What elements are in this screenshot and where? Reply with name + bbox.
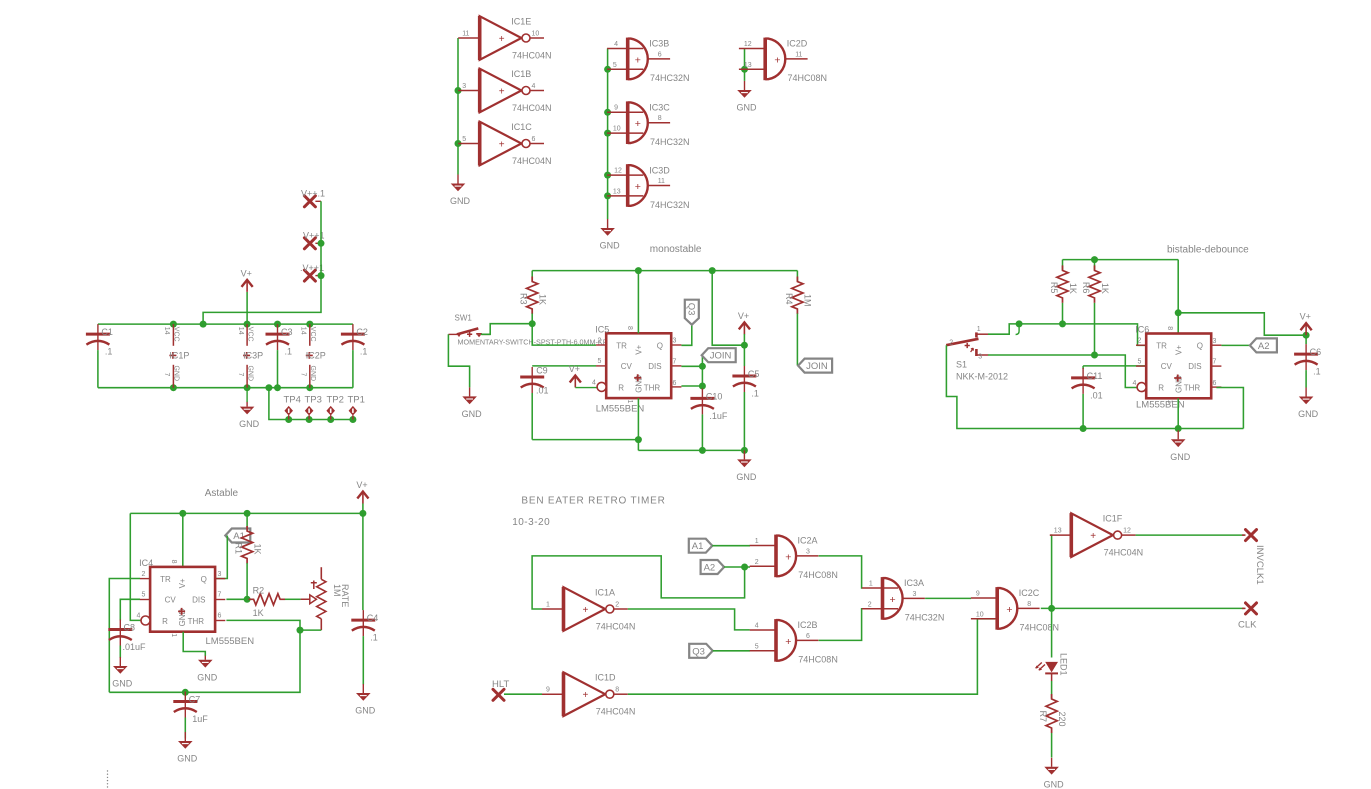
- svg-text:6: 6: [532, 136, 536, 143]
- svg-text:VCC: VCC: [173, 327, 180, 342]
- svg-text:13: 13: [613, 188, 621, 195]
- ground GND (SW1): [462, 387, 483, 419]
- capacitor C10: [690, 386, 728, 450]
- svg-text:10: 10: [532, 30, 540, 37]
- capacitor C1: [86, 324, 113, 388]
- wire net bottom rail (TR/THR/C7): [109, 630, 300, 696]
- svg-text:.1uF: .1uF: [709, 411, 728, 421]
- wire net V+ to IC5 pin 8: [637, 271, 639, 334]
- svg-text:IC1P: IC1P: [169, 350, 189, 360]
- ground GND (spare OR gates): [600, 219, 621, 251]
- svg-text:74HC08N: 74HC08N: [798, 570, 838, 580]
- svg-text:5: 5: [462, 136, 466, 143]
- wire IC5 DIS (pin 7) to JOIN flag: [681, 355, 706, 370]
- wire IC3A output to IC2C pin 9: [925, 597, 971, 599]
- svg-text:.1: .1: [1313, 367, 1321, 377]
- wire IC1A input loop from A2 node: [532, 556, 745, 609]
- svg-text:4: 4: [532, 83, 536, 90]
- wire stub J-hook at junction: [1016, 324, 1020, 335]
- power pins IC2P: [300, 324, 326, 388]
- svg-text:74HC32N: 74HC32N: [650, 73, 690, 83]
- svg-text:14: 14: [163, 327, 170, 335]
- wire S1 pin3 to R6 / IC6 R (pin 4): [988, 352, 1137, 388]
- wire net V+ (astable top rail): [130, 510, 366, 517]
- svg-text:HLT: HLT: [492, 679, 509, 690]
- svg-text:TR: TR: [160, 575, 171, 584]
- svg-text:.1: .1: [105, 347, 113, 357]
- switch SW1: [448, 314, 490, 338]
- svg-text:VCC: VCC: [246, 327, 253, 342]
- svg-text:LM555BEN: LM555BEN: [596, 404, 645, 415]
- svg-text:74HC32N: 74HC32N: [650, 137, 690, 147]
- test point TP1: [348, 395, 365, 420]
- flag CLK (output): [1238, 603, 1257, 631]
- svg-text:74HC04N: 74HC04N: [512, 103, 552, 113]
- svg-text:1M: 1M: [803, 294, 813, 307]
- svg-text:CV: CV: [621, 362, 633, 371]
- svg-text:R: R: [162, 617, 168, 626]
- capacitor C7: [173, 692, 208, 739]
- svg-text:IC1B: IC1B: [511, 69, 531, 79]
- power symbol V+ (bistable): [1300, 312, 1312, 336]
- svg-text:DIS: DIS: [648, 362, 661, 371]
- svg-text:GND: GND: [173, 366, 180, 382]
- supply flag V++1: [303, 231, 325, 249]
- svg-text:IC6: IC6: [1135, 325, 1149, 335]
- svg-text:220: 220: [1057, 712, 1067, 727]
- svg-text:+: +: [499, 87, 505, 98]
- capacitor C9: [520, 366, 548, 440]
- wire net V+ branch to C5: [712, 271, 748, 349]
- wire SW1 pin2 to GND: [448, 334, 469, 387]
- svg-text:R6: R6: [1081, 282, 1091, 294]
- svg-text:IC1C: IC1C: [511, 122, 532, 132]
- wire net V+ (monostable top rail): [532, 267, 797, 274]
- svg-text:6: 6: [673, 380, 677, 387]
- svg-text:GND: GND: [112, 679, 133, 689]
- svg-text:+: +: [774, 54, 780, 66]
- svg-text:5: 5: [1138, 359, 1142, 366]
- svg-text:74HC04N: 74HC04N: [596, 621, 636, 631]
- svg-text:74HC04N: 74HC04N: [596, 707, 636, 717]
- resistor R7: [1038, 681, 1067, 758]
- wire IC6 THR (pin 6) to GND rail: [1216, 388, 1243, 429]
- svg-text:1: 1: [546, 601, 550, 608]
- wire net GND bus: [98, 384, 353, 391]
- svg-text:GND: GND: [197, 672, 218, 682]
- svg-text:4: 4: [137, 613, 141, 620]
- svg-text:74HC08N: 74HC08N: [798, 655, 838, 665]
- svg-text:DIS: DIS: [192, 596, 205, 605]
- svg-text:monostable: monostable: [650, 244, 702, 255]
- capacitor C11: [1071, 368, 1103, 429]
- svg-text:1: 1: [869, 580, 873, 587]
- wire net GND (bistable bottom rail): [946, 345, 1243, 432]
- svg-text:GND: GND: [1044, 779, 1065, 789]
- wire net GND to test points: [269, 388, 357, 423]
- wire A1 to IC2A pin 1: [712, 545, 750, 547]
- wire net C11 to IC6 CV (pin 5): [1083, 366, 1146, 369]
- svg-text:74HC04N: 74HC04N: [1104, 547, 1144, 557]
- svg-text:.01: .01: [1090, 390, 1103, 400]
- or-gate IC3D: [607, 164, 689, 210]
- ground GND (IC2D inputs): [737, 81, 758, 113]
- ground GND (C7): [177, 732, 198, 764]
- svg-text:CLK: CLK: [1238, 620, 1257, 631]
- svg-text:+: +: [890, 594, 896, 606]
- svg-text:13: 13: [1054, 527, 1062, 534]
- svg-text:DIS: DIS: [1188, 362, 1201, 371]
- wire net INVCLK1 (IC1F output): [1136, 534, 1245, 536]
- wire net IC6 pin 8 / V+ branch: [1175, 260, 1310, 339]
- wire IC1A output to IC2B pin 4: [628, 609, 750, 630]
- svg-text:GND: GND: [450, 196, 471, 206]
- ground GND (monostable): [736, 450, 757, 482]
- flag A2 (input): [701, 560, 725, 574]
- svg-text:3: 3: [218, 571, 222, 578]
- svg-text:A2: A2: [1258, 341, 1270, 352]
- svg-text:C11: C11: [1087, 371, 1103, 381]
- svg-text:14: 14: [300, 327, 307, 335]
- svg-text:bistable-debounce: bistable-debounce: [1167, 244, 1249, 255]
- svg-text:74HC08N: 74HC08N: [788, 73, 828, 83]
- svg-text:GND: GND: [177, 754, 198, 764]
- svg-text:GND: GND: [462, 409, 483, 419]
- svg-text:.1: .1: [360, 347, 368, 357]
- svg-text:10: 10: [613, 126, 621, 133]
- svg-text:V+: V+: [634, 344, 643, 354]
- inverter IC1C: [458, 122, 551, 166]
- flag HLT (input): [492, 679, 509, 700]
- svg-text:+: +: [583, 605, 589, 616]
- svg-text:IC2C: IC2C: [1019, 588, 1040, 598]
- svg-text:TR: TR: [616, 341, 627, 350]
- svg-text:INVCLK1: INVCLK1: [1254, 545, 1265, 585]
- svg-text:2: 2: [615, 601, 619, 608]
- switch S1: [946, 326, 1008, 382]
- svg-text:IC3P: IC3P: [243, 350, 263, 360]
- svg-text:74HC04N: 74HC04N: [512, 50, 552, 60]
- ground GND (spare inverters): [450, 175, 471, 207]
- svg-text:GND: GND: [309, 366, 316, 382]
- svg-text:NKK-M-2012: NKK-M-2012: [956, 372, 1008, 382]
- svg-text:3: 3: [978, 354, 982, 361]
- potentiometer RATE 1M: [311, 567, 350, 630]
- svg-text:2: 2: [1138, 338, 1142, 345]
- svg-text:IC1D: IC1D: [595, 673, 616, 683]
- svg-text:GND: GND: [736, 472, 757, 482]
- svg-text:R3: R3: [519, 293, 529, 305]
- test point TP3: [305, 395, 322, 420]
- svg-text:7: 7: [163, 373, 170, 377]
- svg-text:IC2A: IC2A: [798, 536, 818, 546]
- svg-text:8: 8: [1027, 601, 1031, 608]
- svg-text:6: 6: [658, 51, 662, 58]
- resistor R2: [249, 586, 286, 618]
- svg-text:1K: 1K: [252, 544, 262, 555]
- flag INVCLK1 (output): [1242, 530, 1265, 585]
- svg-text:Astable: Astable: [205, 488, 239, 499]
- svg-text:11: 11: [462, 30, 469, 37]
- svg-text:C2: C2: [356, 327, 368, 337]
- svg-text:3: 3: [1213, 338, 1217, 345]
- svg-text:IC4: IC4: [139, 558, 153, 568]
- svg-text:12: 12: [744, 41, 752, 48]
- wire IC6 pin 1 to GND: [1177, 398, 1179, 428]
- svg-text:THR: THR: [1184, 384, 1201, 393]
- svg-text:THR: THR: [188, 617, 205, 626]
- svg-text:R: R: [618, 383, 624, 392]
- svg-text:1K: 1K: [1100, 283, 1110, 294]
- svg-text:7: 7: [1213, 359, 1217, 366]
- svg-text:+: +: [785, 551, 791, 563]
- svg-text:Q3: Q3: [692, 646, 705, 657]
- svg-text:C7: C7: [189, 695, 201, 705]
- svg-text:+: +: [1006, 604, 1012, 616]
- flag JOIN (from R4): [798, 359, 832, 373]
- origin marker dots: [107, 770, 108, 787]
- ground GND (C8): [112, 657, 133, 689]
- power pins IC3P: [237, 324, 263, 388]
- section label bistable-debounce: [1167, 244, 1249, 255]
- svg-text:C10: C10: [706, 391, 723, 401]
- svg-text:3: 3: [673, 338, 677, 345]
- svg-text:6: 6: [806, 633, 810, 640]
- resistor R3: [519, 271, 548, 324]
- or-gate IC3B: [607, 38, 689, 84]
- svg-text:JOIN: JOIN: [710, 351, 732, 362]
- power symbol V+ (power rail): [241, 268, 253, 324]
- svg-text:5: 5: [142, 592, 146, 599]
- svg-text:1uF: 1uF: [192, 714, 208, 724]
- svg-text:C8: C8: [124, 623, 136, 633]
- title BEN EATER RETRO TIMER: [521, 496, 665, 507]
- power symbol V+ (C5): [738, 311, 750, 345]
- svg-text:+: +: [635, 54, 641, 66]
- svg-text:V+: V+: [1174, 345, 1183, 355]
- wire IC4 CV (pin 5) to C8: [120, 599, 140, 620]
- wire net N$spare-inverter-inputs: [455, 38, 462, 175]
- svg-text:GND: GND: [1170, 452, 1191, 462]
- svg-text:C6: C6: [1310, 347, 1322, 357]
- flag JOIN (DIS node): [702, 348, 736, 362]
- svg-text:Q: Q: [1197, 342, 1203, 351]
- svg-text:S1: S1: [956, 360, 967, 370]
- svg-text:V+: V+: [356, 480, 367, 490]
- svg-text:.1: .1: [751, 389, 759, 399]
- svg-text:8: 8: [615, 687, 619, 694]
- svg-text:74HC32N: 74HC32N: [905, 613, 945, 623]
- or-gate IC3C: [607, 101, 689, 147]
- supply flag .V++1: [300, 263, 324, 281]
- svg-text:Q: Q: [201, 575, 207, 584]
- svg-text:11: 11: [795, 51, 802, 58]
- svg-text:74HC08N: 74HC08N: [1020, 623, 1060, 633]
- svg-text:V+: V+: [1300, 312, 1311, 322]
- capacitor C5: [732, 345, 759, 450]
- svg-text:2: 2: [868, 601, 872, 608]
- svg-text:1: 1: [170, 633, 177, 637]
- svg-text:74HC04N: 74HC04N: [512, 156, 552, 166]
- svg-text:SW1: SW1: [455, 314, 473, 323]
- svg-text:+: +: [583, 690, 589, 701]
- test point TP4: [284, 395, 301, 420]
- svg-text:V+: V+: [569, 364, 580, 374]
- svg-text:11: 11: [658, 178, 665, 185]
- wire HLT to IC1D input: [504, 693, 542, 695]
- section label Astable: [205, 488, 239, 499]
- svg-text:IC2B: IC2B: [798, 620, 818, 630]
- section label monostable: [650, 244, 702, 255]
- svg-text:8: 8: [170, 560, 177, 564]
- and-gate IC2A: [750, 535, 838, 581]
- svg-text:IC2P: IC2P: [306, 350, 326, 360]
- capacitor C8: [108, 620, 146, 659]
- wire net V+ (bistable top rail): [1063, 256, 1179, 263]
- resistor R1: [234, 526, 263, 599]
- svg-text:1: 1: [977, 326, 981, 333]
- svg-text:7: 7: [218, 592, 222, 599]
- svg-text:V+: V+: [178, 578, 187, 588]
- svg-text:6: 6: [218, 613, 222, 620]
- svg-text:1: 1: [755, 538, 759, 545]
- svg-text:VCC: VCC: [309, 327, 316, 342]
- resistor R4: [784, 271, 813, 366]
- svg-text:4: 4: [614, 41, 618, 48]
- and-gate IC2B: [750, 619, 838, 665]
- test point TP2: [326, 395, 344, 420]
- svg-text:10: 10: [976, 611, 984, 618]
- svg-text:1K: 1K: [1068, 283, 1078, 294]
- flag A1 (astable output): [225, 529, 250, 543]
- svg-text:5: 5: [755, 643, 759, 650]
- svg-text:Q3: Q3: [685, 303, 696, 316]
- svg-text:9: 9: [546, 687, 550, 694]
- inverter IC1E: [458, 16, 551, 60]
- svg-text:R: R: [1158, 384, 1164, 393]
- wire IC2B output to IC3A pin 2: [819, 609, 862, 641]
- ic 555 timer IC6: [1133, 325, 1222, 411]
- svg-text:GND: GND: [737, 103, 758, 113]
- title 10-3-20: [512, 517, 550, 528]
- inverter IC1A: [542, 587, 635, 631]
- wire net CLK (IC2C output): [1041, 605, 1245, 612]
- svg-text:R5: R5: [1049, 282, 1059, 294]
- ground GND (C4): [355, 684, 376, 716]
- svg-text:A1: A1: [692, 541, 704, 552]
- svg-text:+: +: [785, 636, 791, 648]
- svg-text:4: 4: [592, 380, 596, 387]
- power symbol V+ (astable): [356, 480, 368, 513]
- svg-text:8: 8: [658, 115, 662, 122]
- svg-text:CV: CV: [165, 596, 177, 605]
- wire IC6 Q (pin 3) to A2 flag: [1221, 344, 1250, 346]
- wire R1 top lead: [246, 513, 248, 530]
- svg-text:12: 12: [614, 168, 622, 175]
- svg-text:TP2: TP2: [327, 395, 344, 406]
- svg-text:C9: C9: [536, 366, 548, 376]
- capacitor C2: [341, 324, 368, 388]
- svg-text:7: 7: [673, 359, 677, 366]
- ic 555 timer IC4: [137, 558, 255, 647]
- svg-text:JOIN: JOIN: [806, 361, 828, 372]
- supply flag V++.1: [301, 189, 325, 207]
- svg-text:BEN EATER RETRO TIMER: BEN EATER RETRO TIMER: [521, 496, 665, 507]
- svg-text:GND: GND: [600, 241, 621, 251]
- wire net V+ (vertical from supply flags): [203, 201, 324, 324]
- svg-text:TP1: TP1: [348, 395, 365, 406]
- svg-text:4: 4: [755, 622, 759, 629]
- svg-text:IC1A: IC1A: [595, 588, 615, 598]
- svg-text:GND: GND: [1298, 409, 1319, 419]
- svg-text:IC5: IC5: [595, 324, 609, 334]
- svg-text:R7: R7: [1038, 711, 1048, 723]
- ground GND (IC4): [197, 656, 218, 683]
- wire IC4 pin1 to GND: [183, 632, 205, 656]
- ground GND (bistable): [1170, 430, 1191, 462]
- svg-text:IC3C: IC3C: [649, 103, 670, 113]
- wire IC1D output to IC2C pin 10: [628, 619, 995, 694]
- svg-text:3: 3: [913, 591, 917, 598]
- svg-text:V+: V+: [241, 268, 252, 278]
- svg-text:5: 5: [598, 358, 602, 365]
- wire IC5 Q (pin 3) to Q3 flag: [681, 325, 691, 346]
- svg-text:C3: C3: [281, 327, 293, 337]
- svg-text:C1: C1: [101, 327, 113, 337]
- power pins IC1P: [163, 324, 189, 388]
- svg-text:IC3B: IC3B: [649, 39, 669, 49]
- svg-text:.01: .01: [536, 386, 549, 396]
- wire IC5 THR (pin 6) junction: [681, 366, 706, 389]
- wire net to IC1F input: [1051, 535, 1052, 608]
- wire SW1 pin1 to R3/TR junction: [481, 320, 536, 334]
- wire net GND (monostable bottom): [532, 398, 748, 454]
- svg-text:TP4: TP4: [284, 395, 301, 406]
- wire net V+ VCC bus: [98, 321, 353, 328]
- wire net C9/IC5 CV (pin 5): [532, 365, 596, 367]
- svg-text:LM555BEN: LM555BEN: [206, 636, 255, 647]
- svg-text:7: 7: [300, 373, 307, 377]
- svg-text:TR: TR: [1156, 342, 1167, 351]
- or-gate IC3A: [862, 577, 944, 623]
- svg-text:C4: C4: [367, 613, 379, 623]
- svg-text:12: 12: [1123, 527, 1131, 534]
- svg-text:C5: C5: [748, 369, 760, 379]
- ground GND (C6): [1298, 388, 1319, 420]
- svg-text:.1: .1: [370, 633, 378, 643]
- svg-text:CV: CV: [1161, 362, 1173, 371]
- svg-text:10-3-20: 10-3-20: [512, 517, 550, 528]
- svg-text:LM555BEN: LM555BEN: [1136, 400, 1185, 411]
- svg-text:2: 2: [598, 337, 602, 344]
- svg-text:8: 8: [1166, 326, 1173, 330]
- inverter IC1D: [542, 672, 635, 716]
- wire IC4 Q (pin 3) to A1 flag: [216, 536, 227, 579]
- wire IC4 THR (pin 6) to pot: [226, 620, 321, 633]
- svg-text:1K: 1K: [253, 608, 264, 618]
- resistor R5: [1049, 260, 1078, 324]
- svg-text:9: 9: [976, 590, 980, 597]
- and-gate IC2C: [971, 587, 1059, 633]
- ground GND (power bus): [239, 388, 260, 429]
- svg-text:4: 4: [1133, 380, 1137, 387]
- svg-text:IC3D: IC3D: [649, 165, 670, 175]
- svg-text:IC2D: IC2D: [787, 39, 808, 49]
- svg-text:GND: GND: [246, 366, 253, 382]
- flag Q3 (input): [689, 644, 713, 658]
- wire net V+ to IC4 R (pin 4): [130, 513, 142, 620]
- svg-text:6: 6: [1213, 380, 1217, 387]
